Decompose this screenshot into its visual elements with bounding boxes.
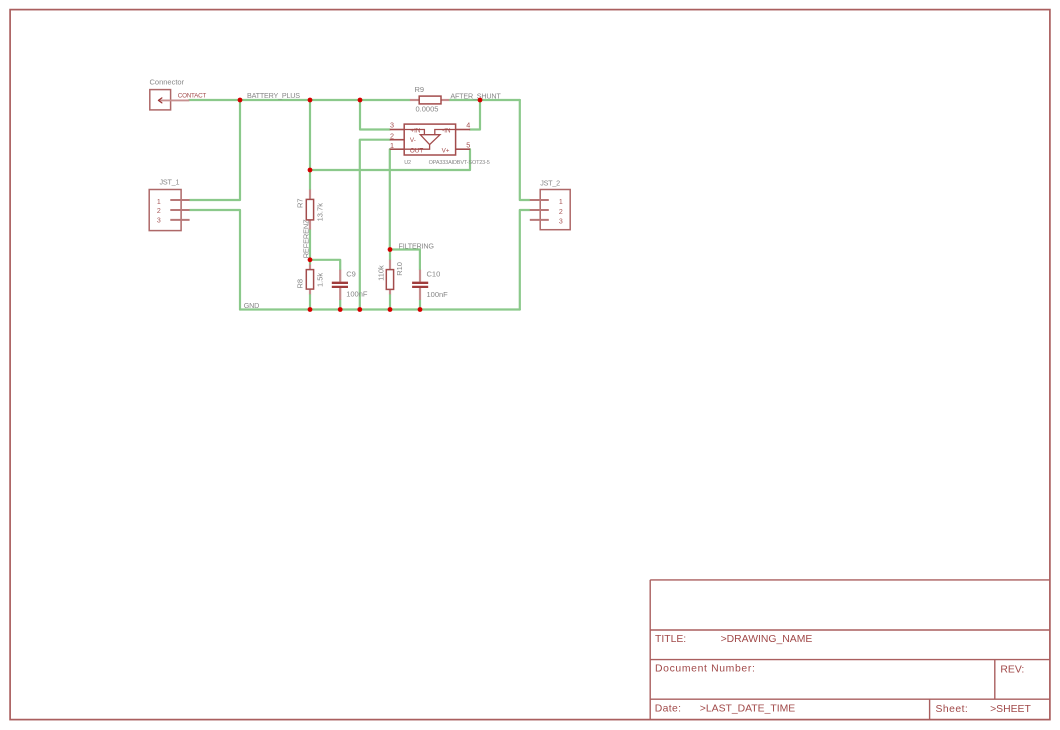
junction node GND x340 bbox=[338, 307, 343, 312]
svg-text:Document Number:: Document Number: bbox=[655, 664, 756, 675]
wire AFTER_SHUNT to JST_2 pin1 bbox=[520, 100, 530, 200]
wire R7 bottom to REFERENZ node bbox=[309, 230, 311, 265]
svg-text:BATTERY_PLUS: BATTERY_PLUS bbox=[247, 91, 300, 100]
svg-text:Sheet:: Sheet: bbox=[936, 704, 969, 715]
resistor R7 bbox=[306, 190, 313, 230]
wire GND horizontal bbox=[240, 308, 520, 310]
svg-text:V+: V+ bbox=[442, 148, 450, 155]
svg-text:2: 2 bbox=[390, 131, 394, 140]
capacitor C9 bbox=[332, 270, 348, 300]
svg-text:0.0005: 0.0005 bbox=[416, 104, 439, 113]
resistor R9 bbox=[410, 96, 449, 104]
wire FILTERING node to R10 bbox=[389, 250, 391, 260]
svg-text:C10: C10 bbox=[427, 270, 441, 279]
connector CONTACT symbol bbox=[150, 90, 190, 110]
capacitor C10 bbox=[412, 270, 428, 300]
wire BATTERY_PLUS horizontal left bbox=[189, 99, 410, 101]
svg-text:2: 2 bbox=[559, 209, 563, 216]
svg-text:C9: C9 bbox=[346, 269, 356, 278]
junction node GND x390 bbox=[388, 307, 393, 312]
svg-text:U2: U2 bbox=[404, 160, 411, 166]
junction node BATTERY_PLUS x360 bbox=[358, 98, 363, 103]
svg-text:1: 1 bbox=[390, 141, 394, 150]
svg-text:GND: GND bbox=[244, 301, 259, 310]
svg-text:CONTACT: CONTACT bbox=[178, 92, 207, 99]
junction node GND x420 bbox=[418, 307, 423, 312]
svg-text:R10: R10 bbox=[395, 262, 404, 276]
svg-text:REV:: REV: bbox=[1000, 664, 1024, 675]
wire REFERENZ node to C9 bbox=[310, 260, 340, 270]
connector JST_2 bbox=[530, 190, 570, 230]
wire R10 bottom to GND bbox=[389, 294, 391, 309]
wire FILTERING to C10 bbox=[390, 250, 420, 270]
junction node GND x310 bbox=[308, 307, 313, 312]
svg-text:1: 1 bbox=[559, 199, 563, 206]
junction node V+ branch bbox=[308, 168, 313, 173]
svg-text:OUT: OUT bbox=[410, 147, 423, 154]
svg-text:1.5k: 1.5k bbox=[316, 273, 325, 287]
connector JST_1 bbox=[149, 190, 189, 231]
op-amp U2 bbox=[390, 124, 470, 155]
svg-text:R9: R9 bbox=[415, 85, 425, 94]
junction node FILTERING bbox=[388, 247, 393, 252]
svg-text:AFTER_SHUNT: AFTER_SHUNT bbox=[450, 91, 501, 100]
wire JST_1 pin1 to BATTERY_PLUS bbox=[190, 100, 240, 200]
wire BATTERY_PLUS down to R7 bbox=[309, 100, 311, 190]
wire C9 bottom to GND bbox=[339, 300, 341, 310]
svg-text:JST_1: JST_1 bbox=[160, 177, 180, 186]
title block frame bbox=[650, 580, 1050, 720]
junction node REFERENZ bbox=[308, 257, 313, 262]
svg-text:100nF: 100nF bbox=[346, 289, 368, 298]
svg-text:>SHEET: >SHEET bbox=[990, 704, 1031, 715]
resistor R8 bbox=[306, 265, 313, 295]
svg-text:5: 5 bbox=[466, 140, 470, 149]
svg-text:TITLE:: TITLE: bbox=[655, 634, 686, 645]
junction node BATTERY_PLUS x240 bbox=[238, 98, 243, 103]
svg-text:V-: V- bbox=[410, 137, 416, 144]
wire JST_2 pin2 to GND bbox=[520, 210, 530, 310]
svg-text:13.7k: 13.7k bbox=[316, 203, 325, 222]
svg-text:-IN: -IN bbox=[442, 127, 451, 134]
svg-text:R7: R7 bbox=[296, 198, 305, 208]
wire JST_1 pin2 to GND bbox=[190, 210, 240, 310]
svg-text:>LAST_DATE_TIME: >LAST_DATE_TIME bbox=[700, 704, 795, 715]
wire R8 bottom to GND bbox=[309, 294, 311, 309]
svg-text:3: 3 bbox=[390, 121, 394, 130]
junction node GND x360 bbox=[357, 307, 362, 312]
svg-text:Date:: Date: bbox=[655, 704, 682, 715]
wire C10 bottom to GND bbox=[419, 300, 421, 310]
wire BATTERY_PLUS horizontal right of R9 bbox=[449, 99, 520, 101]
svg-text:100nF: 100nF bbox=[427, 290, 449, 299]
svg-text:FILTERING: FILTERING bbox=[399, 242, 435, 251]
svg-text:3: 3 bbox=[157, 217, 161, 224]
wire AFTER_SHUNT node to op-amp pin4 bbox=[470, 100, 480, 130]
wire op-amp pin2 V- to GND bbox=[360, 140, 390, 310]
resistor R10 bbox=[386, 260, 393, 295]
svg-text:1: 1 bbox=[157, 199, 161, 206]
svg-text:JST_2: JST_2 bbox=[540, 178, 560, 187]
junction node AFTER_SHUNT bbox=[478, 98, 483, 103]
svg-text:OPA333AIDBVT-SOT23-5: OPA333AIDBVT-SOT23-5 bbox=[429, 160, 490, 166]
svg-text:+IN: +IN bbox=[410, 127, 420, 134]
svg-text:3: 3 bbox=[559, 218, 563, 225]
wire BATTERY_PLUS down to op-amp pin3 bbox=[360, 100, 390, 130]
svg-text:4: 4 bbox=[466, 121, 470, 130]
svg-text:>DRAWING_NAME: >DRAWING_NAME bbox=[721, 634, 813, 645]
svg-text:Connector: Connector bbox=[150, 77, 185, 86]
junction node BATTERY_PLUS x310 bbox=[308, 98, 313, 103]
svg-text:2: 2 bbox=[157, 208, 161, 215]
wire V+ net from node to op-amp pin5 bbox=[310, 149, 470, 170]
svg-text:R8: R8 bbox=[296, 279, 305, 289]
wire op-amp pin1 OUT down to FILTERING bbox=[389, 149, 391, 249]
svg-text:110k: 110k bbox=[376, 265, 385, 281]
